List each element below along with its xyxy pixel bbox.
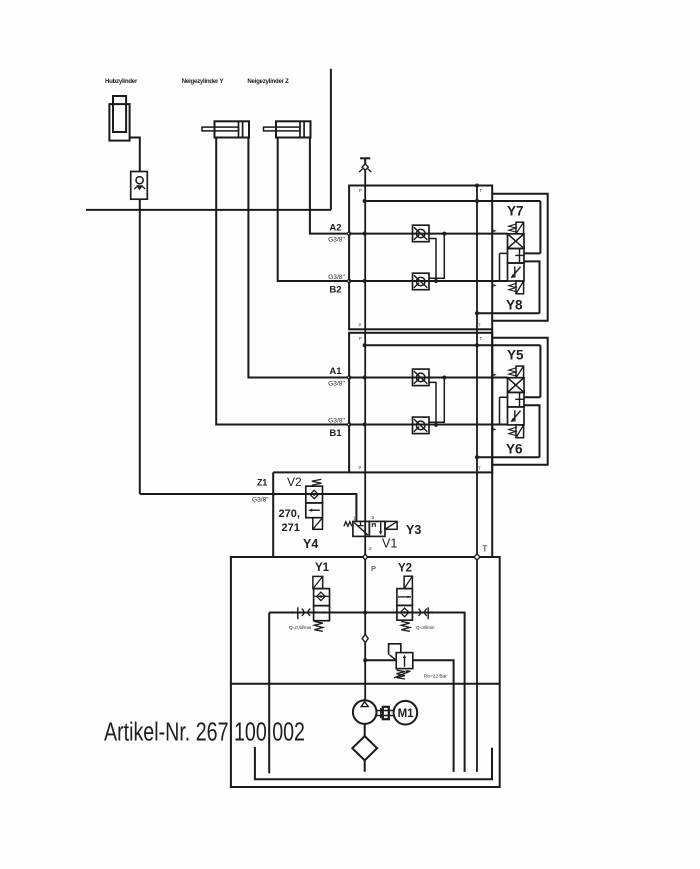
- pilot check valve top box: [413, 225, 430, 242]
- svg-text:M1: M1: [398, 708, 415, 720]
- svg-text:Hubzylinder: Hubzylinder: [105, 78, 138, 85]
- svg-text:Z1: Z1: [257, 478, 267, 488]
- svg-text:T: T: [482, 544, 487, 554]
- Y5 frame right side: [524, 345, 540, 397]
- Y6 frame: [477, 405, 540, 457]
- node T to Y6 frame: [475, 455, 479, 459]
- node T inner line: [475, 199, 479, 203]
- svg-text:T: T: [480, 336, 483, 341]
- wire Y1-Y2 line: [269, 613, 464, 772]
- wire Y1 drain to tank: [268, 613, 270, 774]
- wire drain line x=492 (block right edge extension): [491, 329, 493, 557]
- svg-text:3: 3: [372, 515, 375, 520]
- node pilot-B: [434, 279, 438, 283]
- valve V1 square 2: [369, 521, 385, 536]
- svg-text:Neigezylinder Y: Neigezylinder Y: [182, 78, 224, 85]
- svg-text:2: 2: [369, 546, 372, 551]
- port B2 diamond: [347, 279, 351, 283]
- valve Y1 solenoid: [313, 576, 323, 588]
- node T to Y8 frame: [475, 311, 479, 315]
- node P-Y line: [363, 611, 367, 615]
- svg-text:270,: 270,: [279, 508, 300, 520]
- wire block2 inner top line: [365, 344, 541, 346]
- power unit box: [231, 557, 500, 787]
- Y7 valve square (crossed): [508, 234, 525, 249]
- wire B1 line: [349, 424, 507, 426]
- cylinder Z piston rod: [264, 127, 301, 131]
- center position square: [508, 249, 525, 264]
- node A2-P: [363, 232, 367, 236]
- svg-text:P: P: [359, 323, 362, 328]
- relief valve spring: [397, 670, 406, 679]
- port A2 diamond: [347, 231, 351, 235]
- check valve ball: [136, 177, 143, 184]
- suction pipe below filter: [364, 760, 366, 771]
- Y7 frame right side: [524, 201, 540, 253]
- svg-text:G3/8": G3/8": [328, 418, 345, 425]
- cylinder Hubzylinder piston rod: [113, 96, 126, 132]
- svg-text:G3/8": G3/8": [328, 274, 345, 281]
- svg-text:B2: B2: [329, 285, 341, 296]
- node P inner line: [363, 199, 367, 203]
- shaft pump-motor: [377, 711, 394, 716]
- pilot line from top CV to B line: [429, 239, 436, 282]
- suction filter diamond: [352, 736, 377, 760]
- check valve (below Hubzylinder) box: [131, 172, 148, 200]
- valve Y2 square B (check on line): [397, 605, 413, 620]
- check valve seat arrow: [136, 185, 143, 190]
- cylinder Neigezylinder Z body: [276, 121, 311, 137]
- vent symbol on P line (top): [360, 157, 370, 159]
- node A1-P: [363, 376, 367, 380]
- pump circle: [353, 700, 377, 724]
- tank top line: [231, 683, 500, 685]
- wire Hubzylinder to check valve: [130, 138, 140, 172]
- wire A1 line: [349, 377, 507, 379]
- Y8 frame: [477, 261, 540, 313]
- tank symbol: [255, 747, 492, 779]
- valve Y2 solenoid: [404, 576, 412, 588]
- wire cylinder Y left port to B1: [216, 138, 349, 425]
- wire cylinder Y right port to A1: [248, 138, 349, 378]
- wire B2 line: [349, 280, 507, 282]
- Y8 spring: [509, 284, 516, 292]
- pilot check valve top ball: [416, 229, 425, 238]
- node B1-P: [363, 423, 367, 427]
- wire A2 line: [349, 233, 507, 235]
- svg-text:T: T: [478, 323, 481, 328]
- node relief-P: [363, 658, 367, 662]
- svg-text:P: P: [371, 564, 376, 573]
- port Z1 diamond: [271, 492, 275, 496]
- wire cylinder Z right port to A2: [310, 138, 349, 234]
- Y8 valve square (arrow): [508, 263, 525, 281]
- svg-text:Y6: Y6: [506, 441, 523, 456]
- port T circle on power unit: [475, 555, 480, 560]
- svg-text:Y8: Y8: [506, 298, 523, 313]
- port diamond on P line (above pump): [362, 634, 368, 642]
- svg-text:A2: A2: [329, 222, 341, 233]
- port B1 diamond: [347, 422, 351, 426]
- cylinder Hubzylinder body: [109, 104, 129, 141]
- pilot check valve pair block1: [413, 225, 447, 290]
- valve Y4 top square with check: [306, 486, 323, 503]
- svg-text:T: T: [478, 466, 481, 471]
- cylinder Y piston: [239, 121, 243, 137]
- pilot check valve pair block2: [413, 369, 447, 434]
- svg-text:Q=0,5l/min: Q=0,5l/min: [289, 625, 312, 630]
- node B2-P: [363, 279, 367, 283]
- relief valve body: [396, 653, 413, 669]
- svg-text:Q=3l/min: Q=3l/min: [416, 625, 435, 630]
- solenoid valve stack Y5/Y6: [493, 366, 524, 438]
- wire cylinder Z left port to B2: [278, 138, 349, 282]
- Y7 solenoid box: [516, 222, 524, 234]
- throttle right of Y2: [427, 607, 429, 619]
- node T inner line 2: [475, 343, 479, 347]
- svg-text:V1: V1: [382, 537, 397, 551]
- valve Y1 square B (through): [314, 606, 330, 621]
- valve Y1 spring bottom: [314, 622, 323, 632]
- V2/Y4 sub-block edges: [273, 472, 349, 557]
- wire T line main vertical: [476, 186, 478, 772]
- cylinder Y piston rod: [202, 127, 239, 131]
- svg-text:G3/8": G3/8": [328, 237, 345, 244]
- svg-text:Artikel-Nr. 267 100 002: Artikel-Nr. 267 100 002: [104, 719, 305, 747]
- relief valve pilot tab: [389, 644, 401, 655]
- wire relief branch: [365, 660, 453, 772]
- valve V1 solenoid: [385, 521, 397, 529]
- wire vertical stub at x=331: [330, 69, 332, 210]
- node T at block1 top: [475, 184, 479, 188]
- svg-text:T: T: [480, 188, 483, 193]
- svg-text:A1: A1: [329, 366, 342, 377]
- svg-text:Pe=22 Bar: Pe=22 Bar: [424, 674, 447, 680]
- wire block1 inner top line: [365, 200, 541, 202]
- port P diamond on power unit: [363, 554, 368, 560]
- svg-text:Y4: Y4: [303, 537, 318, 551]
- svg-text:P: P: [359, 466, 362, 471]
- pilot line from A line to bottom CV: [429, 234, 444, 279]
- wire P line main vertical: [364, 170, 366, 700]
- suction line: [364, 724, 366, 736]
- node P inner line 2: [363, 343, 367, 347]
- cylinder Neigezylinder Y body: [215, 121, 250, 137]
- Y5/Y6 outer frame: [492, 338, 548, 465]
- svg-text:Y5: Y5: [507, 348, 524, 363]
- svg-text:Y3: Y3: [406, 523, 421, 537]
- throttle left of Y1: [297, 607, 299, 619]
- svg-text:Y1: Y1: [315, 562, 330, 574]
- svg-text:1: 1: [353, 516, 356, 521]
- manifold block 1 (A2/B2) outline: [349, 186, 492, 330]
- Y7 spring: [509, 224, 516, 232]
- svg-text:G3/8": G3/8": [328, 380, 345, 387]
- svg-text:Y2: Y2: [398, 563, 412, 575]
- Y8 solenoid box: [516, 281, 524, 294]
- port A1 diamond: [347, 375, 351, 379]
- valve Y4 spring top: [312, 479, 322, 485]
- svg-text:P: P: [359, 336, 362, 341]
- valve Y2 square A: [397, 589, 413, 606]
- valve Y4 bottom square with arrow: [306, 503, 323, 518]
- cylinder Z piston: [300, 121, 304, 137]
- node pilot-A: [442, 232, 446, 236]
- wire Z1 line to valve V1: [140, 494, 357, 521]
- valve V1 spring: [344, 522, 352, 527]
- wire check valve down to Z1 line: [139, 199, 141, 494]
- solenoid valve stack Y7/Y8: [493, 222, 524, 294]
- port arrow marks: [493, 230, 496, 233]
- svg-text:G3/8": G3/8": [252, 497, 269, 504]
- svg-text:B1: B1: [329, 428, 342, 439]
- motor circle: [394, 701, 418, 725]
- valve Y4 solenoid: [313, 518, 323, 530]
- valve port links left: [500, 253, 508, 281]
- pump triangle: [361, 702, 368, 707]
- svg-text:V2: V2: [287, 475, 302, 489]
- manifold block 2 (A1/B1) outline: [349, 333, 492, 473]
- coupling: [380, 708, 382, 718]
- Y7/Y8 outer frame: [492, 194, 548, 321]
- svg-text:P: P: [359, 188, 362, 193]
- pilot check valve bottom ball: [416, 277, 425, 286]
- valve Y1 square A (check): [314, 589, 330, 606]
- wire horizontal header line: [86, 209, 331, 211]
- valve V1 square 1: [353, 521, 369, 536]
- svg-text:Y7: Y7: [507, 204, 524, 219]
- pilot check valve bottom box: [413, 273, 430, 290]
- svg-text:Neigezylinder Z: Neigezylinder Z: [247, 78, 289, 85]
- svg-text:271: 271: [282, 522, 300, 534]
- valve Y2 spring bottom: [401, 622, 410, 632]
